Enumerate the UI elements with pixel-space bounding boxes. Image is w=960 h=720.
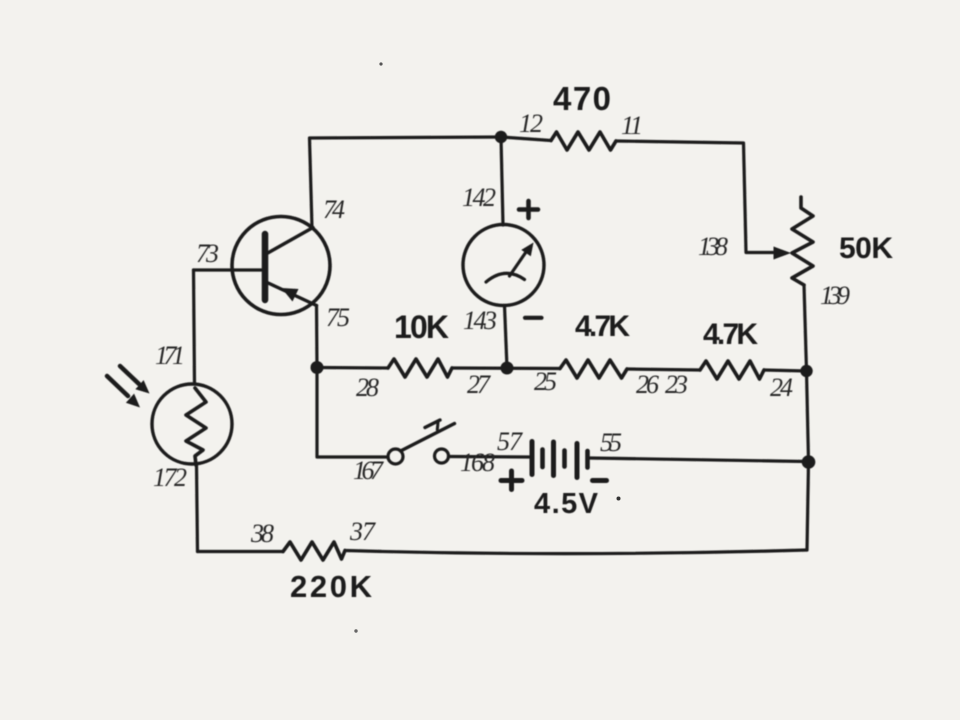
svg-text:37: 37	[349, 517, 376, 546]
svg-text:50K: 50K	[839, 232, 893, 265]
switch contact 167	[388, 449, 403, 464]
wire R10K to node 25	[452, 366, 560, 370]
svg-text:4.5V: 4.5V	[534, 488, 599, 520]
wire node28 to R10K	[317, 366, 388, 370]
transistor collector lead	[266, 228, 313, 255]
wire emitter down to node 28	[315, 306, 319, 368]
light arrow 2 shaft	[107, 376, 128, 396]
wire base lead	[194, 268, 263, 271]
speck artifact top	[379, 62, 382, 65]
battery plate long 3	[575, 444, 580, 478]
wire bottom-left to R220K	[198, 550, 284, 553]
transistor base bar	[262, 234, 269, 300]
svg-text:10K: 10K	[394, 309, 449, 345]
speck artifact bottom	[354, 629, 357, 632]
svg-text:172: 172	[153, 463, 187, 492]
battery minus sign	[593, 478, 607, 483]
svg-text:23: 23	[665, 370, 688, 399]
node 28 junction	[311, 361, 324, 374]
svg-text:27: 27	[467, 370, 491, 399]
switch lever	[402, 424, 455, 451]
battery plate short 1	[540, 450, 545, 468]
svg-text:4.7K: 4.7K	[575, 310, 630, 343]
resistor 220K	[283, 542, 345, 560]
svg-text:57: 57	[497, 427, 523, 456]
wire between 4.7K resistors	[627, 369, 700, 370]
battery plate short 3	[585, 451, 590, 468]
svg-text:24: 24	[770, 373, 793, 402]
switch contact 168	[435, 449, 449, 463]
battery plate long 1	[530, 442, 535, 475]
wire pot bottom to node 24 to battery node to bottom-right corner	[804, 285, 809, 550]
wire switch to battery	[449, 455, 530, 459]
svg-text:28: 28	[356, 373, 379, 402]
svg-text:167: 167	[353, 456, 384, 485]
meter bottom wire	[505, 306, 508, 369]
meter M1 body	[463, 225, 544, 306]
resistor 470	[551, 132, 616, 150]
svg-text:171: 171	[155, 341, 185, 370]
transistor Q1 circle	[232, 217, 330, 315]
meter needle	[510, 252, 527, 276]
wire node12 to R470	[501, 137, 551, 141]
svg-text:4.7K: 4.7K	[703, 318, 758, 351]
light arrow 1 shaft	[120, 366, 139, 384]
svg-text:38: 38	[250, 519, 274, 548]
resistor 4.7K first	[560, 360, 627, 378]
meter plus sign	[519, 201, 538, 218]
node 12	[495, 131, 507, 143]
svg-text:74: 74	[323, 195, 345, 224]
svg-text:12: 12	[519, 109, 543, 138]
resistor 10K	[388, 359, 452, 377]
wire collector to top rail	[310, 137, 502, 228]
switch handle bar	[425, 420, 440, 428]
switch handle post	[436, 423, 440, 430]
meter scale arc	[486, 273, 525, 282]
light arrow 2 head	[126, 394, 140, 408]
speck artifact near 4.5V	[617, 497, 621, 501]
svg-text:143: 143	[463, 306, 497, 335]
node meter-bottom junction	[501, 362, 514, 375]
svg-text:73: 73	[196, 239, 219, 268]
svg-text:75: 75	[326, 303, 350, 332]
wire R220K to bottom-right corner	[345, 550, 807, 554]
potentiometer 50K	[792, 197, 813, 285]
svg-text:139: 139	[820, 281, 850, 310]
transistor emitter lead	[266, 282, 317, 306]
svg-text:26: 26	[636, 370, 659, 399]
node battery-right junction	[802, 455, 816, 469]
battery plate long 2	[551, 442, 556, 476]
battery plate short 2	[562, 451, 567, 467]
wire node28 down to switch	[317, 368, 388, 458]
resistor 4.7K second	[700, 361, 764, 379]
meter minus sign	[525, 316, 542, 320]
svg-text:25: 25	[534, 367, 557, 396]
svg-text:142: 142	[462, 183, 496, 212]
wire R470 to pot wiper	[616, 141, 776, 253]
svg-text:55: 55	[600, 428, 622, 457]
svg-text:138: 138	[698, 232, 728, 261]
svg-text:11: 11	[621, 111, 643, 140]
photoresistor LDR circle	[152, 384, 232, 464]
meter needle arrowhead	[521, 243, 533, 257]
battery plus sign	[501, 471, 522, 490]
node 24	[800, 365, 812, 377]
wiper arrowhead 138	[774, 247, 792, 260]
wire base corner down to LDR	[194, 270, 195, 384]
wire R4.7K to node 24	[764, 370, 807, 371]
svg-text:168: 168	[460, 448, 495, 477]
LDR zigzag element	[186, 388, 206, 465]
meter top wire	[501, 137, 503, 225]
svg-text:220K: 220K	[290, 569, 373, 604]
light arrow 1 head	[135, 380, 149, 393]
emitter arrowhead	[282, 288, 299, 302]
svg-text:470: 470	[553, 80, 611, 117]
wire LDR bottom down	[197, 465, 198, 552]
wire battery to right junction	[590, 458, 807, 462]
